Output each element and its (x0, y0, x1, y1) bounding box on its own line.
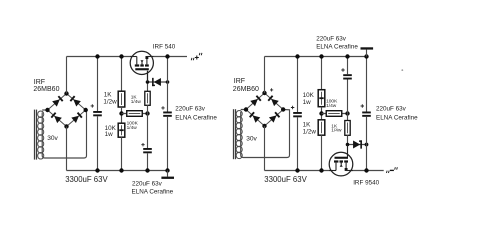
svg-text:220uF 63v: 220uF 63v (132, 180, 163, 187)
ground symbol right (top) (366, 50, 368, 57)
wire bridge BR2 top to 0V rail (264, 57, 266, 94)
resistor R7 100K 1/4w (horizontal) right (322, 113, 348, 115)
bridge diode D7 (upper-left) (256, 95, 262, 101)
wire transformer loop to bridge (rounded box) (42, 110, 86, 158)
mosfet Q2 IRF9540 (329, 152, 353, 176)
svg-text:220uF 63v: 220uF 63v (175, 106, 206, 113)
bridge diode D9 (lower-right) (274, 112, 280, 118)
wire bottom - rail right (265, 170, 332, 172)
bridge diode D6 (lower-left) (249, 112, 255, 118)
svg-text:1K: 1K (104, 92, 113, 99)
output terminal - (385, 171, 388, 173)
svg-text:3300uF 63V: 3300uF 63V (264, 175, 307, 184)
bridge diode D4 (lower-right, B to R) (77, 112, 83, 118)
svg-text:1/2w: 1/2w (303, 128, 317, 135)
svg-text:1w: 1w (303, 99, 312, 106)
wire Q2 gate lead (347, 145, 349, 157)
wire top 0V rail right (265, 56, 367, 58)
svg-text:3300uF 63V: 3300uF 63V (65, 175, 108, 184)
resistor R3 100K 1/4w (horizontal) (122, 113, 148, 115)
node dots R1/R2 junction and rails (119, 54, 123, 58)
node dots C1 (95, 54, 99, 58)
mosfet Q1 IRF540 (130, 51, 153, 74)
svg-text:ELNA Cerafine: ELNA Cerafine (316, 44, 358, 51)
svg-text:26MB60: 26MB60 (33, 86, 59, 93)
svg-text:ELNA Cerafine: ELNA Cerafine (132, 189, 174, 196)
svg-text:1K: 1K (303, 121, 312, 128)
svg-text:220uF 63v: 220uF 63v (376, 105, 407, 112)
resistor R8 1K 1/4w (gate) right (345, 121, 350, 136)
node dots bridge BR2 (262, 91, 266, 95)
diode D5 gate-output (148, 81, 168, 83)
polarity + mark at BR2 top (270, 88, 273, 91)
wire transformer loop to bridge (rounded box) right (241, 110, 290, 158)
transformer T2 secondary winding 30v (233, 109, 235, 159)
bridge diode D2 (upper-left, L to T) (58, 96, 64, 102)
svg-text:1/2w: 1/2w (103, 99, 117, 106)
capacitor C2 220uF 63v (gate) (143, 148, 152, 150)
resistor R1 1K 1/2w (121, 57, 123, 92)
transformer T1 secondary winding 30v (34, 110, 36, 160)
bridge BR2 edge wires (246, 93, 283, 126)
svg-text:1/4w: 1/4w (127, 125, 138, 131)
capacitor C1 3300uF 63V (97, 57, 99, 112)
svg-text:1w: 1w (105, 131, 114, 138)
svg-text:30v: 30v (47, 135, 58, 142)
stray speck (401, 69, 403, 71)
resistor R2 10K 1w (118, 123, 125, 137)
svg-text:IRF: IRF (34, 79, 45, 86)
svg-text:IRF: IRF (234, 78, 245, 85)
capacitor C6 220uF 63v (output) right (366, 57, 368, 112)
svg-text:26MB60: 26MB60 (233, 86, 259, 93)
svg-text:ELNA Cerafine: ELNA Cerafine (376, 115, 418, 122)
diode D10 gate-output right (348, 144, 367, 146)
bridge BR1 edge wires (48, 94, 86, 127)
wire bridge bottom to 0V rail (66, 127, 68, 171)
resistor R4 1K 1/4w (gate) (147, 71, 149, 92)
output terminal + (190, 58, 193, 60)
svg-text:220uF 63v: 220uF 63v (316, 36, 347, 43)
capacitor C5 220uF 63v (gate) right (347, 57, 349, 75)
svg-text:1/4w: 1/4w (131, 99, 142, 105)
bridge diode D1 (lower-left, B to L) (51, 112, 57, 118)
svg-text:1/4w: 1/4w (331, 128, 342, 134)
wire bridge top to + rail (66, 57, 68, 94)
capacitor C4 3300uF 63V right (297, 57, 299, 113)
svg-text:1/4w: 1/4w (326, 103, 337, 109)
ground symbol left (167, 171, 169, 177)
wire Q1 gate lead (147, 71, 149, 82)
capacitor C3 220uF 63v (output) (167, 57, 169, 112)
svg-text:IRF 9540: IRF 9540 (353, 179, 379, 186)
wire bottom 0V rail (67, 170, 168, 172)
bridge diode D8 (upper-right) (268, 95, 274, 101)
svg-text:IRF 540: IRF 540 (153, 44, 176, 51)
resistor R6 1K 1/2w right (318, 120, 325, 135)
wire bridge BR2 bottom to - rail (264, 126, 266, 171)
bridge diode D3 (upper-right, R to T) (70, 96, 76, 102)
svg-text:ELNA Cerafine: ELNA Cerafine (175, 115, 217, 122)
resistor R5 10K 1w right (321, 57, 323, 91)
node dots bridge BR1 (64, 91, 68, 95)
node dots R5/R6 (319, 54, 323, 58)
svg-text:30v: 30v (246, 136, 257, 143)
wire top + rail (67, 56, 133, 58)
